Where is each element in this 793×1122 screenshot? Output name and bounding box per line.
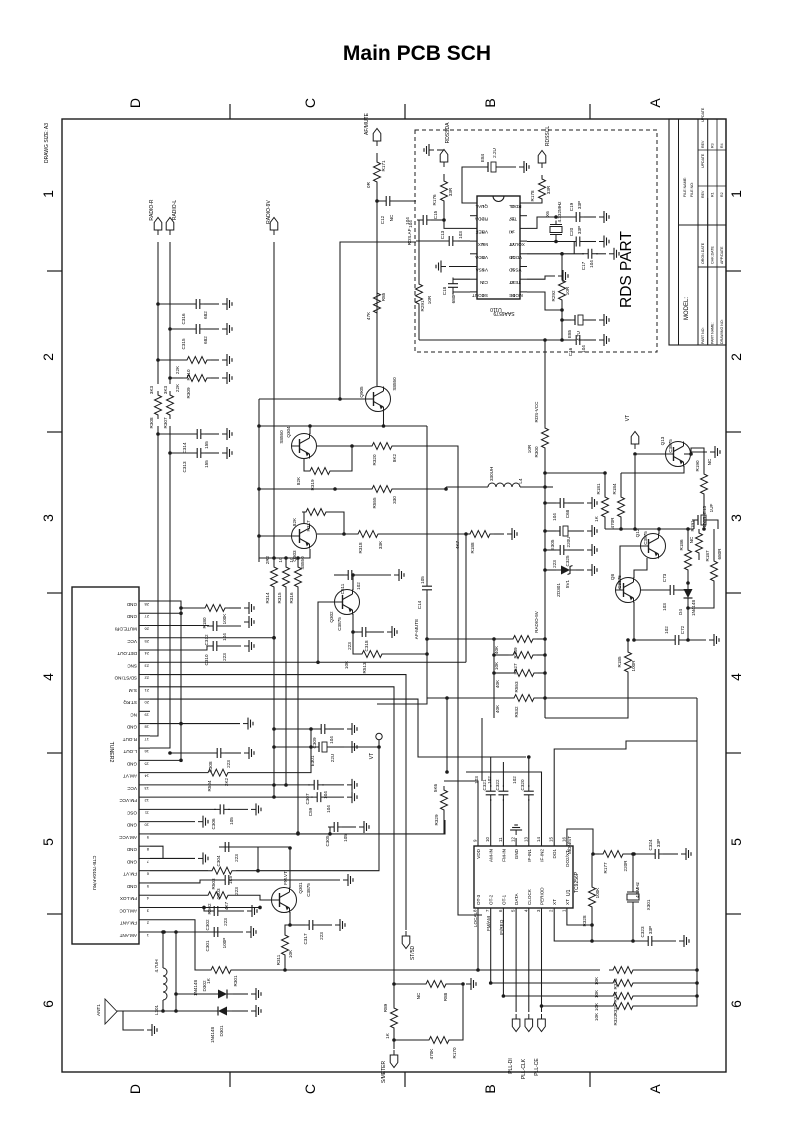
wire U1 pin6 IF/REQ <box>502 908 504 996</box>
svg-text:150R: 150R <box>702 516 707 528</box>
resistor R502 4K7 pin4 FM.LOX <box>150 894 204 896</box>
transistor Q8 C3875 <box>616 578 641 603</box>
svg-text:C19: C19 <box>569 202 574 211</box>
U110 pin 1 QUAL <box>470 202 477 204</box>
U110 pin 11 VSSD <box>520 266 527 268</box>
svg-text:VCC: VCC <box>127 639 137 644</box>
svg-text:R188: R188 <box>470 542 475 553</box>
svg-text:C3875: C3875 <box>643 531 648 545</box>
TUNER2 pin 17 R.OUT <box>139 735 150 737</box>
svg-text:VSSD: VSSD <box>508 268 521 273</box>
wire R314-R316 tops <box>258 558 260 562</box>
svg-text:4.332MHz: 4.332MHz <box>557 201 562 223</box>
svg-text:CLOCK: CLOCK <box>527 888 532 905</box>
wire pin21 S.M to S-METER <box>150 687 394 984</box>
TUNER2 pin 3 AM.LOC <box>139 906 150 908</box>
U110 pin 9 MODE <box>520 291 527 293</box>
svg-text:C307: C307 <box>305 793 310 804</box>
svg-text:C314: C314 <box>182 442 187 453</box>
svg-text:APP/DATE: APP/DATE <box>720 246 724 264</box>
wire MODE pin9 <box>527 292 562 310</box>
svg-text:R301: R301 <box>233 975 238 986</box>
svg-text:R2: R2 <box>720 192 724 197</box>
resistor R320 8K2 <box>317 445 368 447</box>
svg-text:105: 105 <box>420 576 425 584</box>
svg-text:MODE: MODE <box>509 293 523 298</box>
svg-text:102: 102 <box>356 582 361 590</box>
wire U1 pin5 DATA to PLL-DI <box>515 908 517 1012</box>
svg-text:3: 3 <box>728 514 744 522</box>
svg-text:OT-3: OT-3 <box>476 894 481 905</box>
svg-text:C310: C310 <box>204 654 209 665</box>
svg-text:16: 16 <box>561 837 566 842</box>
svg-text:10K: 10K <box>594 1012 599 1021</box>
U110 pin 16 RDCL <box>520 202 527 204</box>
svg-text:103: 103 <box>474 776 479 784</box>
svg-text:R187: R187 <box>705 550 710 561</box>
svg-text:L301: L301 <box>154 1004 159 1015</box>
svg-text:2.2U: 2.2U <box>492 148 497 158</box>
svg-text:33K: 33K <box>378 540 383 549</box>
resistor R170 470K <box>392 1038 396 1042</box>
TUNER2 pin 9 AM.VCC <box>139 833 150 835</box>
svg-text:R318: R318 <box>358 542 363 553</box>
U110 pin 4 MUX <box>470 240 477 242</box>
svg-text:SNC: SNC <box>127 663 137 668</box>
svg-text:10R: 10R <box>565 286 570 295</box>
svg-text:R3: R3 <box>711 143 715 148</box>
wire pin12 FM.VCC / C59 <box>150 796 313 798</box>
wire XI row to crystal <box>527 217 550 228</box>
svg-text:A: A <box>647 98 663 108</box>
wire VCC drop to IF row <box>445 696 449 700</box>
capacitor C312 104 <box>150 625 209 627</box>
svg-text:6: 6 <box>728 1000 744 1008</box>
svg-text:VSSA: VSSA <box>475 268 488 273</box>
svg-text:PART NO:: PART NO: <box>701 327 705 344</box>
svg-text:470K: 470K <box>429 1048 434 1060</box>
wire Q905 base <box>259 398 365 400</box>
svg-text:FM.VT: FM.VT <box>283 871 288 885</box>
svg-text:Main PCB SCH: Main PCB SCH <box>343 42 491 65</box>
svg-text:E305: E305 <box>550 539 555 550</box>
U110 pin 2 RDDA <box>470 215 477 217</box>
capacitor C20 33P <box>570 237 586 247</box>
junction R89 <box>392 982 396 986</box>
svg-text:LOCAL: LOCAL <box>473 911 478 927</box>
transistor Q13 C3875 <box>666 442 691 467</box>
svg-text:NC: NC <box>689 536 694 543</box>
svg-text:33P: 33P <box>577 226 582 234</box>
svg-text:S8550: S8550 <box>279 430 284 444</box>
wire pin15 GND <box>150 759 181 761</box>
capacitor C310 223 <box>150 646 209 650</box>
svg-text:D: D <box>127 1084 143 1094</box>
svg-text:2: 2 <box>728 353 744 361</box>
wire 473 row to RDS-VCC rail <box>545 472 605 474</box>
svg-text:14: 14 <box>536 837 541 842</box>
resistor R184 470R <box>618 493 625 521</box>
svg-text:C316: C316 <box>181 313 186 324</box>
svg-text:1K: 1K <box>385 1032 390 1039</box>
wire pin25 VCC to 9V rail <box>150 637 274 639</box>
svg-text:C: C <box>302 1084 318 1094</box>
wire pin13 VCC / C307 <box>150 784 310 786</box>
svg-text:R308: R308 <box>149 417 154 428</box>
svg-text:1: 1 <box>40 190 56 198</box>
capacitor C325 223 <box>543 548 547 552</box>
diode D302 1N4148 <box>176 993 213 995</box>
svg-text:DO1: DO1 <box>552 849 557 859</box>
svg-text:L.OUT: L.OUT <box>123 749 137 754</box>
svg-text:CHK.DATE: CHK.DATE <box>711 245 715 264</box>
svg-text:223: 223 <box>234 854 239 862</box>
svg-text:IF/REQ: IF/REQ <box>499 919 504 935</box>
svg-text:40K: 40K <box>495 679 500 688</box>
svg-text:C312: C312 <box>204 634 209 645</box>
svg-text:R300: R300 <box>534 446 539 457</box>
svg-text:C313: C313 <box>182 461 187 472</box>
capacitor C323 33P <box>642 936 658 946</box>
capacitor C14 105 AF-MUTE <box>426 426 428 582</box>
svg-text:22: 22 <box>144 676 149 681</box>
svg-text:CIN: CIN <box>480 280 488 285</box>
svg-text:GND: GND <box>126 614 137 619</box>
svg-text:X6: X6 <box>545 211 550 217</box>
TUNER2 pin 18 GND <box>139 723 150 725</box>
resistor R553 40K <box>494 672 510 674</box>
svg-text:3K3: 3K3 <box>149 385 154 394</box>
resistor R318 33K <box>317 533 354 535</box>
svg-text:5: 5 <box>728 838 744 846</box>
transistor Q12 C3875 <box>641 534 666 559</box>
svg-text:223: 223 <box>319 932 324 940</box>
svg-text:682: 682 <box>203 336 208 344</box>
svg-text:22U: 22U <box>330 754 335 762</box>
svg-text:330UH: 330UH <box>489 467 494 481</box>
svg-text:104: 104 <box>405 217 410 225</box>
wire Q8 collector to Q12 emitter <box>634 558 647 578</box>
wire VDDD row <box>527 253 584 255</box>
svg-text:R190: R190 <box>695 460 700 471</box>
connector RADIO-R <box>154 218 162 236</box>
resistor R85 47K <box>374 289 381 317</box>
capacitor C72 102 <box>632 638 636 642</box>
svg-text:5V1: 5V1 <box>565 579 570 588</box>
wire Q905 emitter join <box>382 424 386 428</box>
wire U1 pin15 DO1 <box>554 741 697 846</box>
crystal X6 4.332MHz <box>550 221 562 239</box>
resistor R316 10 <box>297 558 299 566</box>
svg-text:C3875: C3875 <box>617 575 622 589</box>
svg-text:R320: R320 <box>372 454 377 465</box>
TUNER2 pin 26 MUTE.DRI <box>139 625 150 627</box>
svg-text:RDS.AF: RDS.AF <box>407 228 412 245</box>
svg-text:82K: 82K <box>296 476 301 485</box>
svg-text:DATA: DATA <box>514 892 519 905</box>
svg-text:5: 5 <box>40 838 56 846</box>
svg-text:C13: C13 <box>440 230 445 239</box>
svg-text:E85: E85 <box>567 329 572 338</box>
wire Q12 collector <box>658 529 660 534</box>
svg-text:5: 5 <box>511 909 516 912</box>
resistor R191 150R <box>696 529 703 557</box>
RDS PART dashed box <box>415 130 657 352</box>
svg-text:D301: D301 <box>219 1025 224 1036</box>
svg-text:FILE NO:: FILE NO: <box>690 182 694 197</box>
resistor R309 22K <box>168 376 172 380</box>
TUNER2 pin 12 FM.VCC <box>139 796 150 798</box>
svg-text:11: 11 <box>144 810 149 815</box>
svg-text:10K: 10K <box>594 1002 599 1011</box>
U110 pin 15 T57 <box>520 215 527 217</box>
resistor R324 10K row <box>491 982 609 984</box>
svg-text:1N4148: 1N4148 <box>193 980 198 997</box>
svg-text:X301: X301 <box>646 899 651 910</box>
wire Q13 base <box>635 453 665 455</box>
svg-text:470R: 470R <box>610 517 615 529</box>
wire Q905 collector down <box>384 412 428 427</box>
svg-text:XT: XT <box>565 899 570 905</box>
svg-text:18: 18 <box>144 725 149 730</box>
wire U1 pin3 PERIOD to PLL-CE <box>541 908 543 1012</box>
wire pin10 GND <box>150 821 195 823</box>
svg-text:1: 1 <box>146 933 149 938</box>
U110 pin 8 SCOUT <box>470 291 477 293</box>
wire rails 494 and 482 <box>493 639 495 718</box>
resistor R319 82K <box>304 459 306 471</box>
TUNER2 pin 4 FM.LOX <box>139 894 150 896</box>
svg-text:A: A <box>647 1084 663 1094</box>
resistor R311 10K <box>285 925 290 934</box>
svg-text:R180: R180 <box>202 617 207 628</box>
electrolytic E305 220U <box>543 529 547 533</box>
TUNER2 pin 24 DET.OUT <box>139 649 150 651</box>
capacitor C12 NC 104 <box>375 199 379 203</box>
svg-text:Q905: Q905 <box>359 386 364 398</box>
svg-text:NC: NC <box>130 712 137 717</box>
svg-text:R502: R502 <box>207 903 212 914</box>
svg-text:C302: C302 <box>205 919 210 930</box>
svg-text:6: 6 <box>498 909 503 912</box>
svg-text:SAA6579: SAA6579 <box>493 310 514 316</box>
wire bus 489 <box>259 488 335 490</box>
RDS bottom rail wire <box>419 339 562 341</box>
svg-text:104: 104 <box>589 260 594 268</box>
svg-text:R170: R170 <box>452 1047 457 1058</box>
wire AM.VCC to R329 <box>330 820 445 834</box>
svg-text:R171: R171 <box>381 160 386 171</box>
svg-text:S.M: S.M <box>129 688 137 693</box>
wire U1 pin16 DO2 to R177 <box>567 829 593 854</box>
svg-text:DET.OUT: DET.OUT <box>117 651 137 656</box>
wire pin1 QUAL loop to E84 <box>462 167 484 203</box>
capacitor C320 102 on pin13 <box>528 799 530 846</box>
TUNER2 pin 25 VCC <box>139 637 150 639</box>
svg-text:RDS-VCC: RDS-VCC <box>534 401 539 423</box>
svg-text:10K: 10K <box>594 976 599 985</box>
svg-text:11: 11 <box>498 837 503 842</box>
svg-text:220R: 220R <box>623 860 628 872</box>
svg-text:223: 223 <box>234 887 239 895</box>
svg-text:25: 25 <box>144 639 149 644</box>
svg-text:C317: C317 <box>303 933 308 944</box>
svg-text:100P: 100P <box>222 938 227 949</box>
svg-text:VT: VT <box>369 753 375 759</box>
svg-text:AM.LOC: AM.LOC <box>119 908 137 913</box>
wire pin2 FM.ANT to R301 <box>150 920 207 970</box>
TUNER2 pin 21 S.M <box>139 686 150 688</box>
ground near RDSSDA <box>437 149 444 151</box>
capacitor C313 155 <box>168 451 172 455</box>
svg-text:7: 7 <box>146 859 149 864</box>
capacitor C316 682 <box>156 302 160 306</box>
svg-text:VCC: VCC <box>127 786 137 791</box>
grid letter ticks top/bottom <box>229 104 231 119</box>
resistor R89 1K <box>391 1004 398 1032</box>
TUNER2 pin 11 OSC <box>139 808 150 810</box>
connector RDSSCL <box>538 151 546 169</box>
capacitor C13 103 / RDS.AF out <box>416 240 444 242</box>
connector VT <box>631 432 639 450</box>
TUNER2 pin 8 GND <box>139 845 150 847</box>
svg-text:AM.ANT: AM.ANT <box>119 933 137 938</box>
svg-text:6: 6 <box>40 1000 56 1008</box>
svg-text:C325: C325 <box>565 555 570 566</box>
TUNER2 pin 6 FM.VT <box>139 870 150 872</box>
svg-text:33P: 33P <box>577 201 582 209</box>
svg-text:R292: R292 <box>551 290 556 301</box>
svg-text:NC: NC <box>416 992 421 999</box>
svg-text:16: 16 <box>144 749 149 754</box>
capacitor C306 105 pin11 OSC <box>150 808 216 810</box>
svg-text:C306: C306 <box>211 818 216 829</box>
diode D4 1N4148 <box>684 584 693 604</box>
svg-text:XI: XI <box>509 229 513 234</box>
svg-text:223: 223 <box>347 642 352 650</box>
svg-text:14: 14 <box>144 774 149 779</box>
svg-text:MODEL:: MODEL: <box>684 297 690 320</box>
svg-text:102: 102 <box>487 776 492 784</box>
svg-text:3: 3 <box>146 908 149 913</box>
ground VSSA pin6 <box>449 266 470 268</box>
svg-text:8: 8 <box>146 847 149 852</box>
svg-text:2: 2 <box>549 909 554 912</box>
wire pin22 SD/ST.INO to ST/5D <box>150 675 406 930</box>
svg-text:QUAL: QUAL <box>475 204 488 209</box>
inductor L301 4.7UH <box>162 932 164 968</box>
resistor R527 10K <box>494 654 509 656</box>
svg-text:22K: 22K <box>175 365 180 374</box>
svg-text:R532: R532 <box>514 706 519 717</box>
U110 pin 6 VSSA <box>470 266 477 268</box>
svg-text:21: 21 <box>144 688 149 693</box>
grid number ticks left/right <box>47 270 62 272</box>
svg-text:AM.VCC: AM.VCC <box>118 835 137 840</box>
svg-text:5: 5 <box>146 884 149 889</box>
connector RADIO-9V <box>270 218 278 236</box>
svg-text:D4: D4 <box>678 609 683 615</box>
svg-text:DRAWG SIZE: A3: DRAWG SIZE: A3 <box>44 123 50 163</box>
svg-text:1N4148: 1N4148 <box>691 600 696 617</box>
svg-text:155: 155 <box>204 441 209 449</box>
resistor R292 10R <box>559 276 566 304</box>
svg-text:C3875: C3875 <box>668 439 673 453</box>
svg-text:1K: 1K <box>594 515 599 522</box>
svg-text:E84: E84 <box>480 153 485 162</box>
capacitor C324 33P <box>649 849 665 859</box>
capacitor C15 104 <box>442 218 446 222</box>
zener ZD301 5V1 <box>543 568 547 572</box>
svg-text:E13: E13 <box>702 505 707 514</box>
svg-text:15: 15 <box>549 837 554 842</box>
TUNER2 pin 22 SD/ST.INO <box>139 674 150 676</box>
svg-text:RADIO-L: RADIO-L <box>172 200 178 221</box>
svg-text:680R: 680R <box>717 548 722 560</box>
svg-text:TEST: TEST <box>509 280 521 285</box>
svg-text:104: 104 <box>581 345 586 353</box>
wire collector Q304 up <box>259 425 384 427</box>
svg-text:U1: U1 <box>566 889 572 896</box>
svg-text:4.7UH: 4.7UH <box>154 959 159 972</box>
svg-text:3: 3 <box>536 909 541 912</box>
TUNER2 pin 28 GND <box>139 600 150 602</box>
svg-text:R191: R191 <box>690 520 695 531</box>
capacitor C301 100P <box>208 927 224 937</box>
svg-text:28: 28 <box>144 602 149 607</box>
wire RADIO-L line <box>169 242 171 384</box>
capacitor C303 223 pin5 <box>150 880 221 883</box>
svg-text:FM.VCC: FM.VCC <box>119 798 137 803</box>
svg-text:15: 15 <box>144 761 149 766</box>
svg-text:8K2: 8K2 <box>392 453 397 462</box>
svg-text:RDCL: RDCL <box>509 204 522 209</box>
svg-text:R513: R513 <box>362 662 367 673</box>
svg-text:10: 10 <box>485 837 490 842</box>
svg-text:PLL-CLK: PLL-CLK <box>521 1058 527 1079</box>
wire VT rail <box>634 456 636 529</box>
svg-text:13: 13 <box>144 786 149 791</box>
transistor Q304 S8550 <box>292 434 317 459</box>
svg-text:UPDATE: UPDATE <box>701 153 705 168</box>
svg-text:105: 105 <box>229 817 234 825</box>
svg-text:33P: 33P <box>648 926 653 934</box>
svg-text:ANT1: ANT1 <box>96 1004 101 1016</box>
capacitor C315 682 <box>168 327 172 331</box>
svg-text:Q12: Q12 <box>635 528 640 537</box>
TUNER2 pin 5 GND <box>139 882 150 884</box>
svg-text:100R: 100R <box>631 660 636 672</box>
svg-text:AM.VT: AM.VT <box>123 774 137 779</box>
wire U1 pin9 VDD <box>444 781 478 846</box>
TUNER2 pin 16 L.OUT <box>139 747 150 749</box>
svg-text:C17: C17 <box>581 261 586 270</box>
svg-text:RDDA: RDDA <box>474 217 488 222</box>
svg-text:RDS PART: RDS PART <box>618 231 635 308</box>
wire XOUYT row <box>527 241 572 243</box>
resistor R176 33R <box>443 174 445 180</box>
svg-text:C15: C15 <box>433 210 438 219</box>
capacitor C309 104 <box>274 728 317 730</box>
svg-text:223: 223 <box>552 560 557 568</box>
resistor R322 10K row <box>542 1005 610 1007</box>
svg-text:C318: C318 <box>364 640 369 651</box>
svg-text:TC9256P: TC9256P <box>574 871 580 893</box>
svg-text:82K: 82K <box>292 517 297 526</box>
electrolytic E84 2.2U <box>482 162 498 172</box>
svg-text:4: 4 <box>146 896 149 901</box>
wire cap link <box>573 242 575 254</box>
